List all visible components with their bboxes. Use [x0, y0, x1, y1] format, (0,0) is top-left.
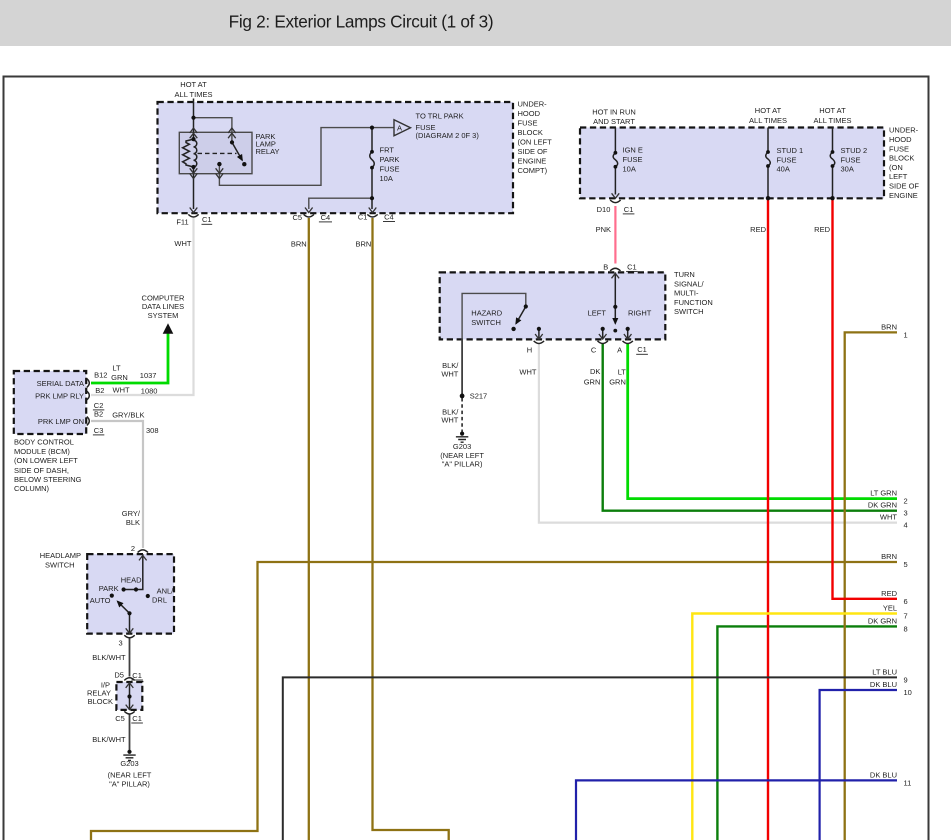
svg-text:SWITCH: SWITCH [471, 318, 501, 327]
svg-text:BRN: BRN [881, 322, 897, 331]
svg-text:C1: C1 [627, 262, 637, 271]
svg-text:DK BLU: DK BLU [870, 680, 897, 689]
svg-text:YEL: YEL [883, 604, 897, 613]
svg-text:GRN: GRN [111, 373, 128, 382]
svg-text:11: 11 [904, 778, 912, 787]
svg-text:5: 5 [904, 560, 908, 569]
svg-text:B2: B2 [95, 386, 104, 395]
svg-text:F11: F11 [176, 218, 188, 227]
svg-text:SIGNAL/: SIGNAL/ [674, 279, 705, 288]
svg-text:A: A [617, 346, 622, 355]
svg-text:LEFT: LEFT [588, 308, 607, 317]
svg-text:9: 9 [904, 675, 908, 684]
svg-text:BLK/WHT: BLK/WHT [92, 735, 126, 744]
svg-text:HEADLAMP: HEADLAMP [40, 551, 81, 560]
svg-text:S217: S217 [470, 392, 488, 401]
svg-text:ENGINE: ENGINE [518, 157, 547, 166]
svg-text:FUNCTION: FUNCTION [674, 298, 713, 307]
svg-text:WHT: WHT [441, 369, 458, 378]
svg-text:SIDE OF: SIDE OF [518, 147, 548, 156]
svg-text:C1: C1 [637, 345, 647, 354]
svg-text:10: 10 [904, 688, 912, 697]
svg-text:7: 7 [904, 612, 908, 621]
svg-text:COLUMN): COLUMN) [14, 484, 50, 493]
svg-text:HOT AT: HOT AT [819, 106, 846, 115]
svg-text:FUSE: FUSE [841, 156, 861, 165]
svg-text:LT: LT [112, 363, 121, 372]
svg-text:WHT: WHT [519, 368, 536, 377]
svg-text:RED: RED [814, 225, 830, 234]
svg-text:AND START: AND START [593, 117, 635, 126]
svg-text:LEFT: LEFT [889, 172, 908, 181]
svg-text:DK BLU: DK BLU [870, 770, 897, 779]
svg-text:WHT: WHT [113, 385, 130, 394]
svg-text:MULTI-: MULTI- [674, 289, 699, 298]
svg-text:BELOW STEERING: BELOW STEERING [14, 475, 82, 484]
svg-text:DK: DK [590, 367, 600, 376]
svg-text:PRK LMP ON: PRK LMP ON [38, 417, 84, 426]
svg-text:C4: C4 [384, 212, 394, 221]
svg-text:WHT: WHT [174, 239, 191, 248]
svg-text:LT GRN: LT GRN [870, 489, 897, 498]
svg-text:B2: B2 [94, 409, 103, 418]
svg-text:D10: D10 [597, 205, 611, 214]
svg-text:H: H [527, 346, 532, 355]
svg-text:C1: C1 [132, 671, 142, 680]
svg-text:GRN: GRN [584, 377, 601, 386]
svg-text:RED: RED [750, 225, 766, 234]
svg-text:HEAD: HEAD [121, 576, 142, 585]
svg-text:MODULE (BCM): MODULE (BCM) [14, 447, 70, 456]
svg-text:FUSE: FUSE [889, 144, 909, 153]
svg-text:RIGHT: RIGHT [628, 308, 652, 317]
svg-text:C5: C5 [293, 213, 303, 222]
svg-text:6: 6 [904, 597, 908, 606]
svg-text:G203: G203 [453, 442, 471, 451]
svg-text:PARK: PARK [380, 155, 400, 164]
svg-text:BRN: BRN [291, 240, 307, 249]
svg-text:PRK LMP RLY: PRK LMP RLY [35, 392, 84, 401]
svg-text:C1: C1 [624, 205, 634, 214]
svg-text:2: 2 [904, 497, 908, 506]
svg-text:ENGINE: ENGINE [889, 191, 918, 200]
svg-text:ANL/: ANL/ [157, 586, 175, 595]
svg-text:30A: 30A [841, 165, 854, 174]
svg-text:DK GRN: DK GRN [868, 616, 897, 625]
svg-text:HAZARD: HAZARD [471, 308, 502, 317]
svg-text:G203: G203 [120, 759, 138, 768]
svg-text:FUSE: FUSE [777, 156, 797, 165]
svg-text:1080: 1080 [141, 387, 158, 396]
svg-text:C5: C5 [115, 714, 125, 723]
svg-text:Fig 2: Exterior Lamps Circuit: Fig 2: Exterior Lamps Circuit (1 of 3) [229, 12, 494, 32]
svg-text:BODY CONTROL: BODY CONTROL [14, 437, 74, 446]
svg-text:ALL TIMES: ALL TIMES [814, 116, 852, 125]
svg-text:BLK/WHT: BLK/WHT [92, 653, 126, 662]
svg-text:DRL: DRL [152, 596, 167, 605]
svg-text:DK GRN: DK GRN [868, 501, 897, 510]
svg-text:(NEAR LEFT: (NEAR LEFT [440, 451, 484, 460]
svg-text:C1: C1 [202, 215, 212, 224]
svg-text:DATA LINES: DATA LINES [142, 302, 184, 311]
svg-text:WHT: WHT [441, 416, 458, 425]
svg-text:BLOCK: BLOCK [889, 154, 914, 163]
svg-text:FRT: FRT [380, 146, 395, 155]
svg-text:C3: C3 [94, 426, 104, 435]
svg-text:1: 1 [904, 330, 908, 339]
svg-text:C1: C1 [358, 212, 368, 221]
svg-text:BRN: BRN [355, 240, 371, 249]
svg-text:C: C [591, 346, 597, 355]
svg-text:PNK: PNK [596, 225, 611, 234]
svg-text:C1: C1 [132, 714, 142, 723]
svg-text:ALL TIMES: ALL TIMES [749, 116, 787, 125]
svg-text:AUTO: AUTO [90, 596, 111, 605]
svg-text:2: 2 [131, 544, 135, 553]
svg-text:FUSE: FUSE [380, 165, 400, 174]
svg-text:GRN: GRN [609, 378, 626, 387]
svg-text:HOT IN RUN: HOT IN RUN [592, 108, 636, 117]
svg-text:(NEAR LEFT: (NEAR LEFT [108, 771, 152, 780]
svg-text:TO TRL PARK: TO TRL PARK [416, 112, 464, 121]
svg-text:3: 3 [904, 509, 908, 518]
svg-text:3: 3 [119, 639, 123, 648]
svg-text:BLK: BLK [126, 518, 140, 527]
svg-text:BRN: BRN [881, 552, 897, 561]
svg-text:B: B [603, 262, 608, 271]
svg-text:LT BLU: LT BLU [872, 667, 897, 676]
svg-text:HOT AT: HOT AT [755, 106, 782, 115]
svg-text:(ON LEFT: (ON LEFT [518, 138, 553, 147]
svg-text:B12: B12 [94, 371, 107, 380]
svg-text:(ON: (ON [889, 163, 903, 172]
svg-text:STUD 1: STUD 1 [777, 146, 804, 155]
svg-text:PARK: PARK [99, 584, 119, 593]
svg-text:4: 4 [904, 521, 908, 530]
svg-text:SIDE OF DASH,: SIDE OF DASH, [14, 466, 69, 475]
svg-text:COMPT): COMPT) [518, 166, 548, 175]
svg-text:HOOD: HOOD [889, 135, 912, 144]
svg-text:A: A [397, 124, 402, 133]
svg-text:RELAY: RELAY [256, 147, 280, 156]
svg-text:TURN: TURN [674, 270, 695, 279]
svg-text:RED: RED [881, 589, 897, 598]
svg-text:1037: 1037 [140, 371, 157, 380]
svg-text:10A: 10A [623, 165, 636, 174]
svg-text:UNDER-: UNDER- [518, 100, 548, 109]
svg-text:GRY/BLK: GRY/BLK [112, 411, 144, 420]
svg-text:308: 308 [146, 426, 159, 435]
svg-text:LT: LT [618, 368, 627, 377]
svg-text:HOOD: HOOD [518, 109, 541, 118]
svg-text:COMPUTER: COMPUTER [142, 293, 186, 302]
svg-text:FUSE: FUSE [623, 155, 643, 164]
svg-text:"A" PILLAR): "A" PILLAR) [442, 460, 483, 469]
svg-text:10A: 10A [380, 174, 393, 183]
svg-text:"A" PILLAR): "A" PILLAR) [109, 780, 150, 789]
svg-text:(ON LOWER LEFT: (ON LOWER LEFT [14, 456, 78, 465]
svg-text:40A: 40A [777, 165, 790, 174]
svg-text:SWITCH: SWITCH [45, 561, 75, 570]
svg-text:SERIAL DATA: SERIAL DATA [37, 379, 84, 388]
svg-text:D5: D5 [114, 670, 124, 679]
svg-text:STUD 2: STUD 2 [841, 146, 868, 155]
svg-text:HOT AT: HOT AT [180, 80, 207, 89]
svg-text:FUSE: FUSE [518, 119, 538, 128]
svg-text:BLOCK: BLOCK [88, 697, 113, 706]
svg-text:SWITCH: SWITCH [674, 307, 704, 316]
svg-text:C4: C4 [321, 213, 331, 222]
svg-text:(DIAGRAM 2 0F 3): (DIAGRAM 2 0F 3) [416, 131, 480, 140]
svg-text:8: 8 [904, 624, 908, 633]
svg-text:SYSTEM: SYSTEM [148, 311, 179, 320]
svg-text:IGN E: IGN E [623, 146, 643, 155]
svg-text:WHT: WHT [880, 513, 897, 522]
svg-text:ALL TIMES: ALL TIMES [175, 90, 213, 99]
svg-text:UNDER-: UNDER- [889, 126, 919, 135]
svg-text:SIDE OF: SIDE OF [889, 182, 919, 191]
svg-text:GRY/: GRY/ [122, 509, 141, 518]
svg-text:BLOCK: BLOCK [518, 128, 543, 137]
